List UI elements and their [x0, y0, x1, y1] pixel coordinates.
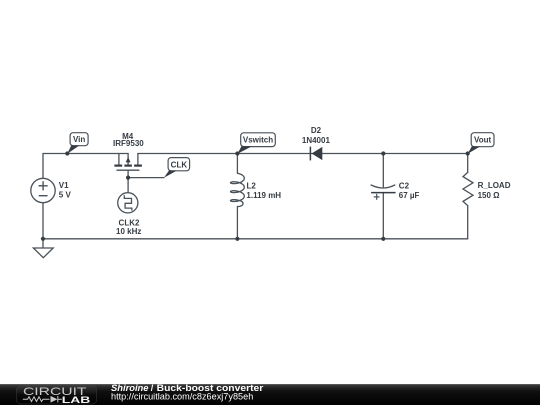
svg-text:Vin: Vin — [73, 135, 85, 144]
svg-text:Vswitch: Vswitch — [243, 136, 273, 145]
svg-text:67 µF: 67 µF — [399, 191, 420, 200]
svg-text:L2: L2 — [247, 181, 257, 190]
svg-text:1N4001: 1N4001 — [302, 136, 331, 145]
svg-text:C2: C2 — [399, 181, 410, 190]
svg-text:5 V: 5 V — [59, 191, 72, 200]
svg-text:V1: V1 — [59, 181, 69, 190]
svg-text:LAB: LAB — [62, 395, 91, 405]
svg-text:R_LOAD: R_LOAD — [478, 181, 511, 190]
svg-text:CLK: CLK — [171, 160, 188, 169]
svg-text:150 Ω: 150 Ω — [478, 191, 501, 200]
svg-text:http://circuitlab.com/c8z6exj7: http://circuitlab.com/c8z6exj7y85eh — [111, 392, 253, 402]
svg-text:IRF9530: IRF9530 — [113, 139, 144, 148]
svg-text:1.119 mH: 1.119 mH — [246, 191, 281, 200]
svg-text:10 kHz: 10 kHz — [116, 227, 141, 236]
svg-text:Vout: Vout — [474, 136, 492, 145]
svg-text:D2: D2 — [311, 126, 322, 135]
